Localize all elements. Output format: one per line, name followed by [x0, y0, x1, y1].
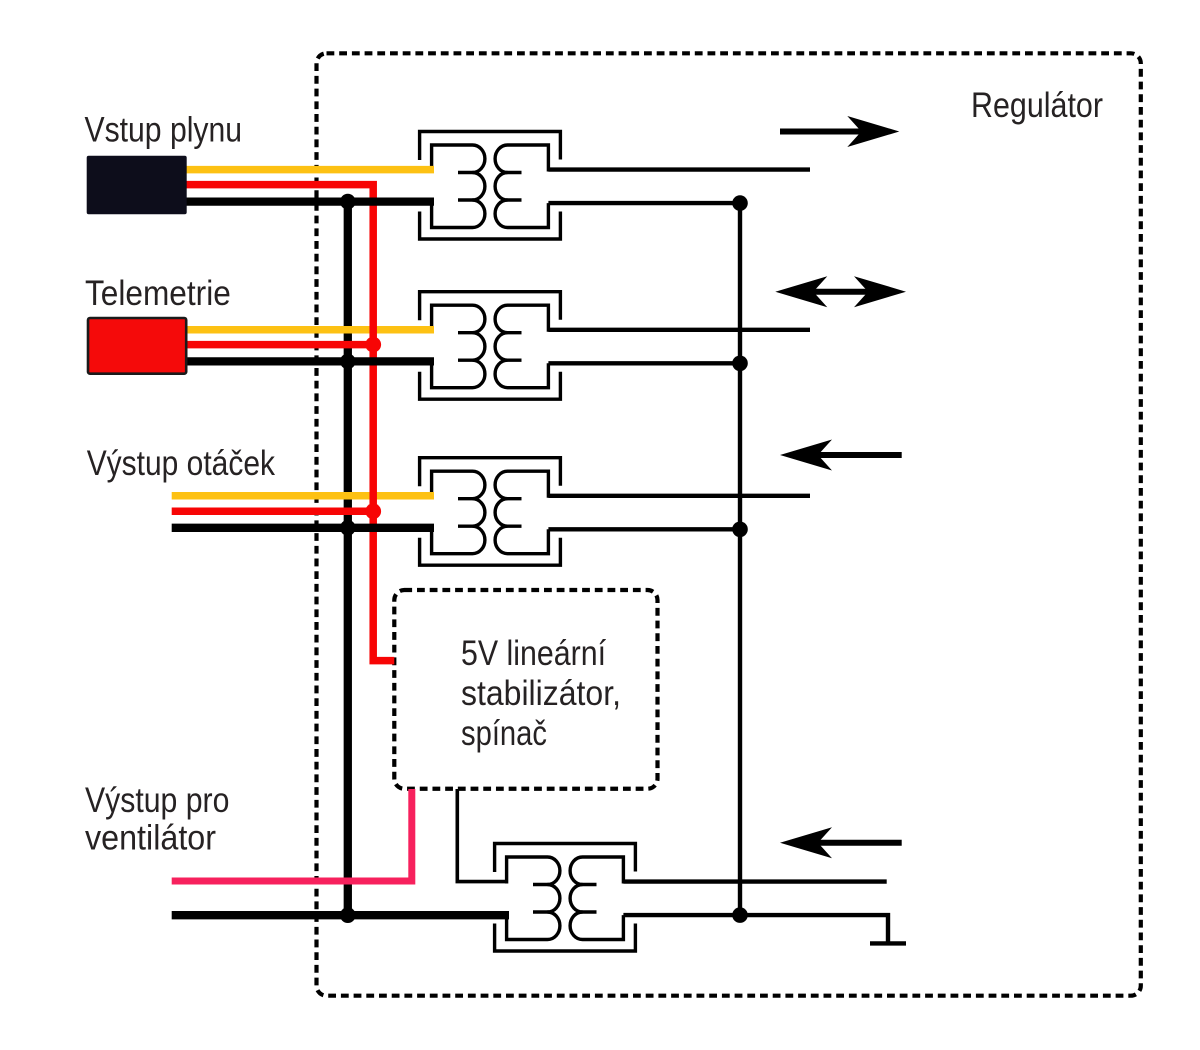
- isolation transformer T4 (fan/5V channel): [495, 844, 636, 952]
- wire: black return Vstup plynu to T1: [187, 197, 435, 205]
- wire: black return Vystup otacek to T3: [172, 524, 434, 532]
- wire: black ground bus vertical: [344, 202, 352, 916]
- isolation transformer T1 (throttle channel): [420, 132, 561, 240]
- connector: Telemetrie (red plug): [88, 318, 186, 374]
- wire: yellow signal Telemetrie to T2: [187, 326, 434, 334]
- wire: common ground collector vertical: [738, 203, 742, 915]
- arrow: signal out (fan): [818, 840, 902, 846]
- wire: T3 lower output: [548, 527, 740, 531]
- isolation transformer T3 (rpm channel): [420, 458, 561, 566]
- arrow: bidirectional (telemetry): [813, 289, 868, 295]
- isolation transformer T2 (telemetry channel): [420, 292, 561, 400]
- 5V stabilizer dashed box: [394, 590, 657, 789]
- svg-text:Výstup pro: Výstup pro: [85, 781, 229, 820]
- node: T4 ground junction: [732, 907, 748, 923]
- wire: T2 lower output: [548, 361, 740, 365]
- svg-text:stabilizátor,: stabilizátor,: [461, 674, 621, 713]
- wire: yellow signal Vystup otacek to T3: [172, 492, 434, 500]
- svg-text:Regulátor: Regulátor: [971, 86, 1103, 125]
- wire: red Telemetrie to bus: [187, 341, 373, 349]
- svg-text:Výstup otáček: Výstup otáček: [87, 444, 276, 483]
- node: black junction at T4 row: [340, 907, 356, 923]
- wire: yellow signal Vstup plynu to T1: [187, 166, 435, 174]
- arrow: signal out (rpm): [818, 452, 902, 458]
- wire: red Vystup otacek to bus: [172, 508, 374, 516]
- svg-text:Telemetrie: Telemetrie: [85, 274, 231, 313]
- wire: red 5V bus from Vstup plynu to stabilizer box: [187, 185, 395, 661]
- node: red junction at rpm: [365, 503, 381, 519]
- ground symbol: [870, 941, 906, 945]
- wire: T1 lower output: [548, 201, 740, 205]
- wire: 5V box to T4 signal input: [457, 789, 508, 882]
- node: black junction at T1 row: [340, 194, 356, 210]
- svg-text:spínač: spínač: [461, 714, 547, 753]
- svg-text:ventilátor: ventilátor: [85, 819, 216, 858]
- wire: T1 upper output: [548, 167, 810, 171]
- wire: T3 upper output: [548, 494, 810, 498]
- node: T2 ground junction: [732, 356, 748, 372]
- wire: black return bottom to T4: [172, 911, 509, 919]
- svg-text:Vstup plynu: Vstup plynu: [85, 111, 243, 150]
- dashed enclosure box: Regulátor: [317, 53, 1141, 995]
- wire: black return Telemetrie to T2: [187, 357, 434, 365]
- wire: T4 lower output to ground: [623, 915, 888, 943]
- connector: Vstup plynu (black plug): [87, 156, 187, 214]
- node: T3 ground junction: [732, 522, 748, 538]
- arrow: signal in (throttle): [780, 129, 862, 135]
- wire: T4 upper output: [623, 879, 886, 883]
- node: T1 ground junction: [732, 195, 748, 211]
- wire: T2 upper output: [548, 328, 810, 332]
- node: red junction at telemetry: [365, 337, 381, 353]
- node: black junction at T3 row: [340, 520, 356, 536]
- svg-text:5V lineární: 5V lineární: [461, 634, 606, 673]
- wire: pink fan output to 5V box: [172, 789, 412, 881]
- node: black junction at T2 row: [340, 354, 356, 370]
